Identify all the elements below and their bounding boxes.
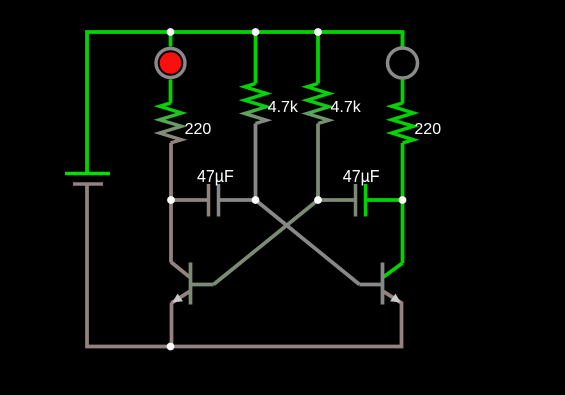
node dot Q2 collector/C2 xyxy=(399,196,407,204)
wire: C2 right plate to node above Q2 collector xyxy=(367,198,403,202)
wire: cross-coupling diagonal from node B2 to Q2 base xyxy=(256,200,360,285)
node dot top rail at R3 xyxy=(314,28,322,36)
wire: R4 bottom through node to Q2 collector xyxy=(401,143,405,263)
wire: R3 bottom lead to node B1 xyxy=(316,124,320,201)
svg-text:220: 220 xyxy=(185,121,212,138)
wire: top rail from battery + to right corner xyxy=(87,32,403,173)
Q1 base bar xyxy=(189,263,193,305)
wire: 4.7k left top lead xyxy=(254,32,258,84)
resistor R1 220 (left) xyxy=(160,103,182,143)
wire: cross-coupling diagonal from node B1 to Q1 base xyxy=(214,200,319,285)
wire: node to C1 left plate xyxy=(171,198,207,202)
wire: node B1 to C2 left plate xyxy=(318,198,354,202)
wire: LED2 bottom lead to R4 xyxy=(401,80,405,104)
capacitor C2 47uF (right) xyxy=(356,184,366,217)
node dot top rail at LED1 xyxy=(167,28,175,36)
LED D1 (lit, red) xyxy=(156,49,185,78)
node dot B2 xyxy=(252,196,260,204)
Q2 emitter diagonal xyxy=(384,292,402,304)
node dot bottom rail at Q1 emitter xyxy=(167,343,175,351)
Q2 base bar xyxy=(381,263,385,305)
wire: R2 bottom lead to node B2 xyxy=(254,124,258,201)
Q2 emitter arrow xyxy=(390,294,401,303)
svg-text:220: 220 xyxy=(414,121,441,138)
wire: LED2 top stub xyxy=(401,32,405,47)
battery V1 5V xyxy=(65,174,110,185)
transistor Q2 (right NPN) xyxy=(360,263,403,305)
wire: 4.7k right top lead xyxy=(316,32,320,84)
wire: Q1 emitter to bottom rail xyxy=(170,303,174,347)
Q2 base lead xyxy=(360,283,383,287)
node dot B1 xyxy=(314,196,322,204)
wire: LED1 top stub xyxy=(169,32,173,47)
resistor R3 4.7k (right) xyxy=(307,84,329,124)
Q2 collector diagonal xyxy=(384,263,403,277)
transistor Q1 (left NPN) xyxy=(171,262,214,305)
Q1 emitter arrow xyxy=(172,294,183,303)
wire: LED1 bottom lead to R1 xyxy=(169,80,173,104)
node dot Q1 collector/C1 xyxy=(167,196,175,204)
LED D2 (off) xyxy=(388,48,418,78)
wire: C1 right plate to node B2 xyxy=(220,198,256,202)
svg-text:4.7k: 4.7k xyxy=(331,99,362,116)
resistor R4 220 (right) xyxy=(392,103,414,143)
svg-text:4.7k: 4.7k xyxy=(268,99,299,116)
wire: battery - lead down to bottom rail and along to Q2 emitter xyxy=(87,186,402,347)
Q1 base lead xyxy=(191,283,214,287)
svg-text:47µF: 47µF xyxy=(343,167,380,187)
wire: R1 bottom to node / Q1 collector column xyxy=(169,143,173,263)
capacitor C1 47uF (left) xyxy=(209,184,219,217)
svg-text:47µF: 47µF xyxy=(197,167,234,187)
Q1 collector diagonal xyxy=(171,262,190,277)
resistor R2 4.7k (left) xyxy=(245,84,267,124)
node dot top rail at R2 xyxy=(252,28,260,36)
Q1 emitter diagonal xyxy=(172,292,190,304)
